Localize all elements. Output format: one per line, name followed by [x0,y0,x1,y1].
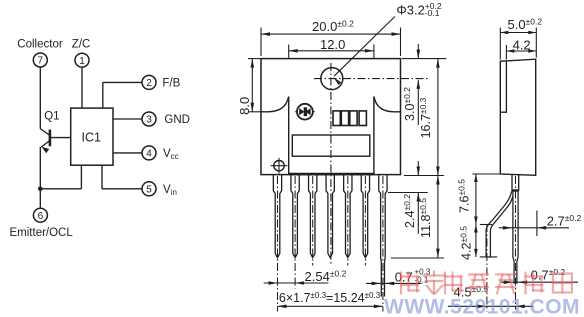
svg-text:-0.1: -0.1 [425,8,440,18]
svg-text:4.2: 4.2 [513,37,531,52]
svg-text:6: 6 [38,211,44,222]
svg-text:12.0: 12.0 [320,37,345,52]
svg-text:WWW.520101.COM: WWW.520101.COM [384,296,580,317]
svg-text:8.0: 8.0 [237,97,252,115]
svg-text:Q1: Q1 [44,110,59,122]
svg-text:2: 2 [146,78,152,89]
svg-text:7: 7 [38,56,44,67]
svg-text:Emitter/OCL: Emitter/OCL [10,227,74,239]
svg-text:1: 1 [79,56,85,67]
svg-text:GND: GND [164,114,190,126]
svg-text:3: 3 [146,115,152,126]
svg-text:5: 5 [146,184,152,195]
svg-text:Collector: Collector [17,38,63,50]
svg-text:Z/C: Z/C [72,38,91,50]
svg-text:4: 4 [146,149,152,160]
svg-text:IC1: IC1 [82,131,102,145]
svg-text:F/B: F/B [162,78,180,90]
svg-text:Φ3.2: Φ3.2 [396,2,424,17]
